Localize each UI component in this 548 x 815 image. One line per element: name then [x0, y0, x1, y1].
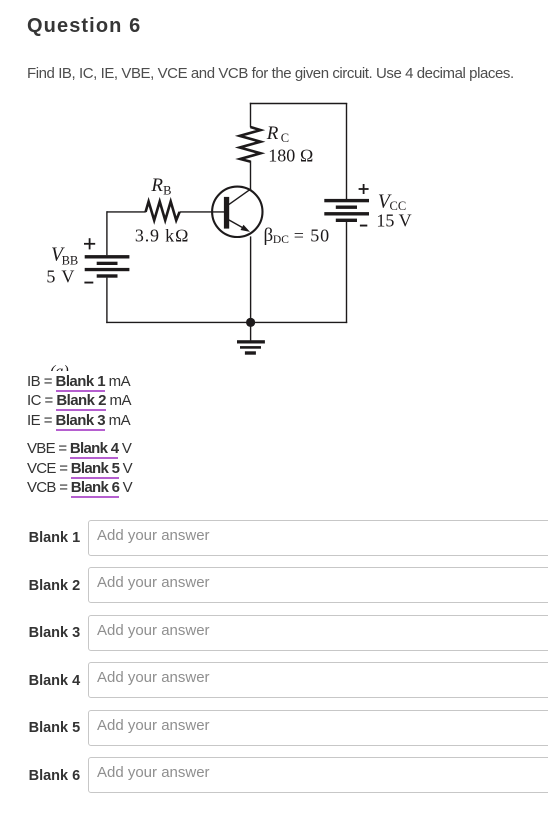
svg-text:(a): (a) — [50, 363, 69, 371]
question text — [27, 66, 514, 81]
input row 2 — [29, 579, 81, 594]
svg-text:β: β — [264, 225, 274, 246]
label VBB value 5 V — [46, 266, 74, 286]
svg-text:C: C — [281, 131, 289, 145]
label VCC value 15 V — [376, 210, 411, 230]
svg-text:5: 5 — [46, 266, 55, 286]
circuit figure — [0, 95, 460, 371]
heading — [27, 16, 141, 36]
wire VBB bottom lead — [106, 278, 108, 324]
transistor Q1 emitter line — [229, 220, 245, 229]
wire bottom rail — [106, 321, 347, 323]
input row 6 — [29, 769, 81, 784]
wire VBB top lead — [106, 211, 108, 255]
wire ground lead — [250, 322, 252, 340]
svg-text:R: R — [266, 123, 279, 144]
wire top rail — [250, 103, 347, 105]
svg-text:3.9 kΩ: 3.9 kΩ — [135, 225, 190, 245]
wire base lead from RB to transistor — [180, 211, 225, 213]
node emitter-ground junction — [246, 318, 255, 327]
resistor RB — [146, 202, 180, 221]
transistor Q1 circle — [212, 187, 262, 237]
wire RC top lead — [250, 103, 252, 128]
input row 4 — [29, 674, 81, 689]
transistor Q1 emitter arrow — [241, 225, 251, 232]
answer list — [27, 374, 130, 392]
label VCC plus — [359, 184, 369, 194]
battery VCC plates — [324, 199, 369, 222]
battery VBB plates — [85, 255, 130, 278]
svg-text:B: B — [163, 183, 171, 197]
transistor Q1 base bar — [224, 197, 229, 229]
wire RC bottom lead to collector — [250, 161, 252, 190]
svg-text:180 Ω: 180 Ω — [268, 145, 313, 165]
wire VCC bottom lead — [346, 222, 348, 323]
label RB value 3.9 kilohm — [135, 225, 190, 245]
wire RB left lead — [107, 211, 146, 213]
label beta DC = 50 — [264, 225, 331, 246]
label VBB designator — [51, 244, 78, 267]
svg-text:DC: DC — [273, 234, 289, 246]
svg-text:V: V — [61, 266, 74, 286]
input row 1 — [29, 531, 81, 546]
wire emitter to bottom rail — [250, 236, 252, 322]
wire VCC top lead — [346, 103, 348, 199]
ground symbol — [237, 340, 265, 354]
svg-text:R: R — [150, 175, 163, 196]
svg-text:15 V: 15 V — [376, 210, 411, 230]
label VCC designator — [378, 191, 406, 213]
resistor RC — [240, 127, 261, 162]
label RC value 180 ohm — [268, 145, 313, 165]
label VBB minus — [84, 282, 93, 284]
input row 3 — [29, 626, 81, 641]
svg-text:= 50: = 50 — [294, 225, 330, 245]
label figure (a) — [50, 363, 69, 380]
transistor Q1 collector line — [229, 189, 251, 205]
label VCC minus — [360, 225, 367, 227]
label VBB plus — [84, 238, 95, 249]
input row 5 — [29, 721, 81, 736]
label RC designator — [266, 123, 289, 145]
label RB designator — [150, 175, 171, 198]
